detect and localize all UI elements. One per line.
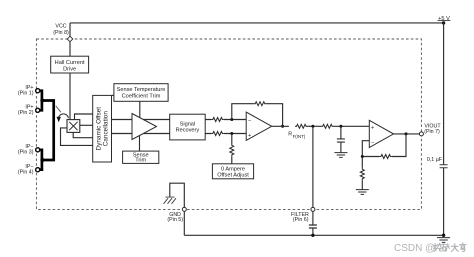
- wire: dynamic offset to signal recovery lower: [112, 133, 170, 135]
- wire: RC node to capacitor C2: [340, 126, 342, 139]
- svg-text:(Pin 5): (Pin 5): [167, 217, 183, 223]
- pin IP- (Pin 3): [36, 148, 40, 152]
- svg-text:Coefficient Trim: Coefficient Trim: [122, 94, 161, 100]
- svg-text:−: −: [248, 118, 251, 124]
- block: 0 Ampere Offset Adjust: [212, 164, 253, 179]
- svg-text:0 Ampere: 0 Ampere: [221, 166, 245, 172]
- node: feedback divider node: [361, 155, 364, 158]
- wire: dynamic offset box to sense temp box: [112, 94, 114, 96]
- wire: buffer feedback loop: [362, 134, 406, 157]
- ground: supply ground symbol: [437, 238, 450, 243]
- wire: U2 output to RF(INT): [272, 125, 289, 127]
- capacitor CF: [309, 225, 317, 228]
- svg-text:(Pin 4): (Pin 4): [18, 169, 34, 175]
- svg-text:R: R: [288, 132, 292, 138]
- wire: bottom ground rail: [184, 234, 443, 236]
- svg-text:Cancellation: Cancellation: [102, 111, 109, 147]
- wire: filter node down to FILTER pin: [312, 126, 314, 207]
- ground: C2 ground: [334, 153, 347, 158]
- node: buffer output junction: [405, 132, 408, 135]
- ground: divider ground: [356, 190, 369, 195]
- svg-text:+: +: [248, 133, 251, 139]
- node: offset tap: [230, 132, 233, 135]
- svg-text:F(INT): F(INT): [293, 134, 306, 139]
- pin IP- (Pin 4): [36, 168, 40, 172]
- capacitor CBYP 0.1 uF: [440, 165, 448, 168]
- wire: +5V right rail upper: [443, 23, 445, 165]
- op-amp U2 triangle: [246, 112, 272, 140]
- svg-text:(Pin 3): (Pin 3): [18, 149, 34, 155]
- svg-text:Signal: Signal: [180, 121, 196, 127]
- svg-text:+5 V: +5 V: [438, 16, 450, 22]
- wire: capacitor to ground rail: [312, 228, 314, 235]
- block: Hall Current Drive: [51, 56, 89, 73]
- svg-text:Sense Temperature: Sense Temperature: [117, 87, 166, 93]
- svg-text:Hall Current: Hall Current: [55, 60, 85, 66]
- wire: hall right terminal: [80, 124, 93, 126]
- wire: C2 to ground: [340, 142, 342, 153]
- wire: FILTER pin to capacitor: [312, 211, 314, 225]
- resistor R6 feedback: [380, 155, 392, 159]
- op-amp A1 triangle: [132, 114, 157, 140]
- wire: signal recovery lower output: [205, 133, 246, 135]
- pin FILTER (Pin 6): [311, 207, 315, 211]
- wire: thick conductor pins 3-4 bar: [40, 150, 42, 170]
- wire: R5 to buffer: [334, 125, 370, 127]
- resistor R2: [211, 132, 223, 136]
- pin VCC (Pin 8) diamond: [67, 36, 73, 42]
- resistor R5: [321, 124, 333, 128]
- wire: thick conductor pins 1-2 bar: [40, 91, 42, 111]
- capacitor C2: [337, 139, 345, 142]
- svg-text:Drive: Drive: [63, 66, 76, 72]
- IC boundary dashed box: [36, 39, 421, 209]
- wire: offset adjust chain: [231, 134, 233, 164]
- block: Sense Temperature Coefficient Trim: [114, 84, 168, 102]
- ground: internal chassis ground: [164, 197, 177, 204]
- resistor R3 feedback: [254, 102, 266, 106]
- svg-text:VCC: VCC: [55, 24, 66, 30]
- block: Sense Trim: [123, 151, 159, 163]
- svg-text:Recovery: Recovery: [176, 128, 200, 134]
- wire: filter node to RC: [315, 125, 321, 127]
- resistor R7 vertical: [360, 168, 364, 180]
- pin IP+ (Pin 2): [36, 108, 40, 112]
- hall element X box: [67, 120, 80, 133]
- node: conductor junction upper: [40, 99, 44, 103]
- svg-text:(Pin 6): (Pin 6): [293, 217, 309, 223]
- pin VIOUT (Pin 7): [419, 132, 423, 136]
- wire: hall top tap to dynamic offset: [75, 114, 93, 120]
- wire: GND pin to ground rail: [183, 211, 185, 235]
- block: Dynamic Offset Cancellation: [93, 95, 112, 162]
- resistor R4 vertical: [230, 144, 234, 156]
- wire: sense temp trim to amp: [139, 101, 141, 118]
- wire: GND internal: [170, 183, 185, 207]
- wire: divider to R7: [361, 157, 363, 190]
- node: filter node: [311, 125, 314, 128]
- svg-text:Offset Adjust: Offset Adjust: [217, 173, 249, 179]
- current direction arrow: [56, 106, 69, 121]
- svg-text:Trim: Trim: [135, 158, 146, 164]
- node: filter ground junction: [311, 234, 314, 237]
- wire: dynamic offset to signal recovery upper: [112, 119, 170, 121]
- wire: VCC diamond to Hall Current Drive: [69, 42, 71, 56]
- wire: hall left terminal loop: [61, 128, 93, 145]
- svg-text:−: −: [371, 141, 374, 147]
- wire: buffer output: [394, 133, 420, 135]
- wire: signal recovery upper output: [205, 119, 246, 121]
- node: RC node: [339, 125, 342, 128]
- pin IP+ (Pin 1): [36, 89, 40, 93]
- svg-text:CSDN @: CSDN @: [394, 243, 435, 254]
- wire: thick conductor loop: [42, 101, 54, 161]
- wire: +5V right rail lower: [443, 168, 445, 236]
- wire: RF(INT) to filter node: [308, 125, 316, 127]
- wire: hall drive to hall element: [69, 73, 71, 120]
- svg-text:0,1 µF: 0,1 µF: [427, 157, 443, 163]
- wire: +5V top rail: [70, 22, 444, 24]
- wire: amp to sense trim: [139, 136, 141, 152]
- wire: hall bottom terminal: [73, 132, 93, 137]
- svg-text:(Pin 7): (Pin 7): [424, 129, 440, 135]
- node: conductor junction lower: [40, 158, 44, 162]
- svg-text:(Pin 8): (Pin 8): [53, 30, 69, 36]
- node: amp output junction: [281, 125, 284, 128]
- node: ground rail right junction: [442, 234, 445, 237]
- svg-text:+: +: [371, 126, 374, 132]
- svg-text:Dynamic Offset: Dynamic Offset: [95, 107, 102, 151]
- resistor RF(INT): [295, 124, 307, 128]
- wire: feedback up and across: [232, 104, 283, 127]
- pin GND (Pin 5): [182, 207, 186, 211]
- wire: VCC to top rail: [69, 23, 71, 36]
- op-amp U3 buffer triangle: [369, 120, 393, 147]
- svg-text:(Pin 2): (Pin 2): [18, 110, 34, 116]
- resistor R1: [211, 118, 223, 122]
- node: feedback tap: [230, 118, 233, 121]
- watermark CSDN: [394, 243, 466, 254]
- svg-text:(Pin 1): (Pin 1): [18, 90, 34, 96]
- node: +5V corner junction: [442, 21, 445, 24]
- block: Signal Recovery: [170, 114, 206, 140]
